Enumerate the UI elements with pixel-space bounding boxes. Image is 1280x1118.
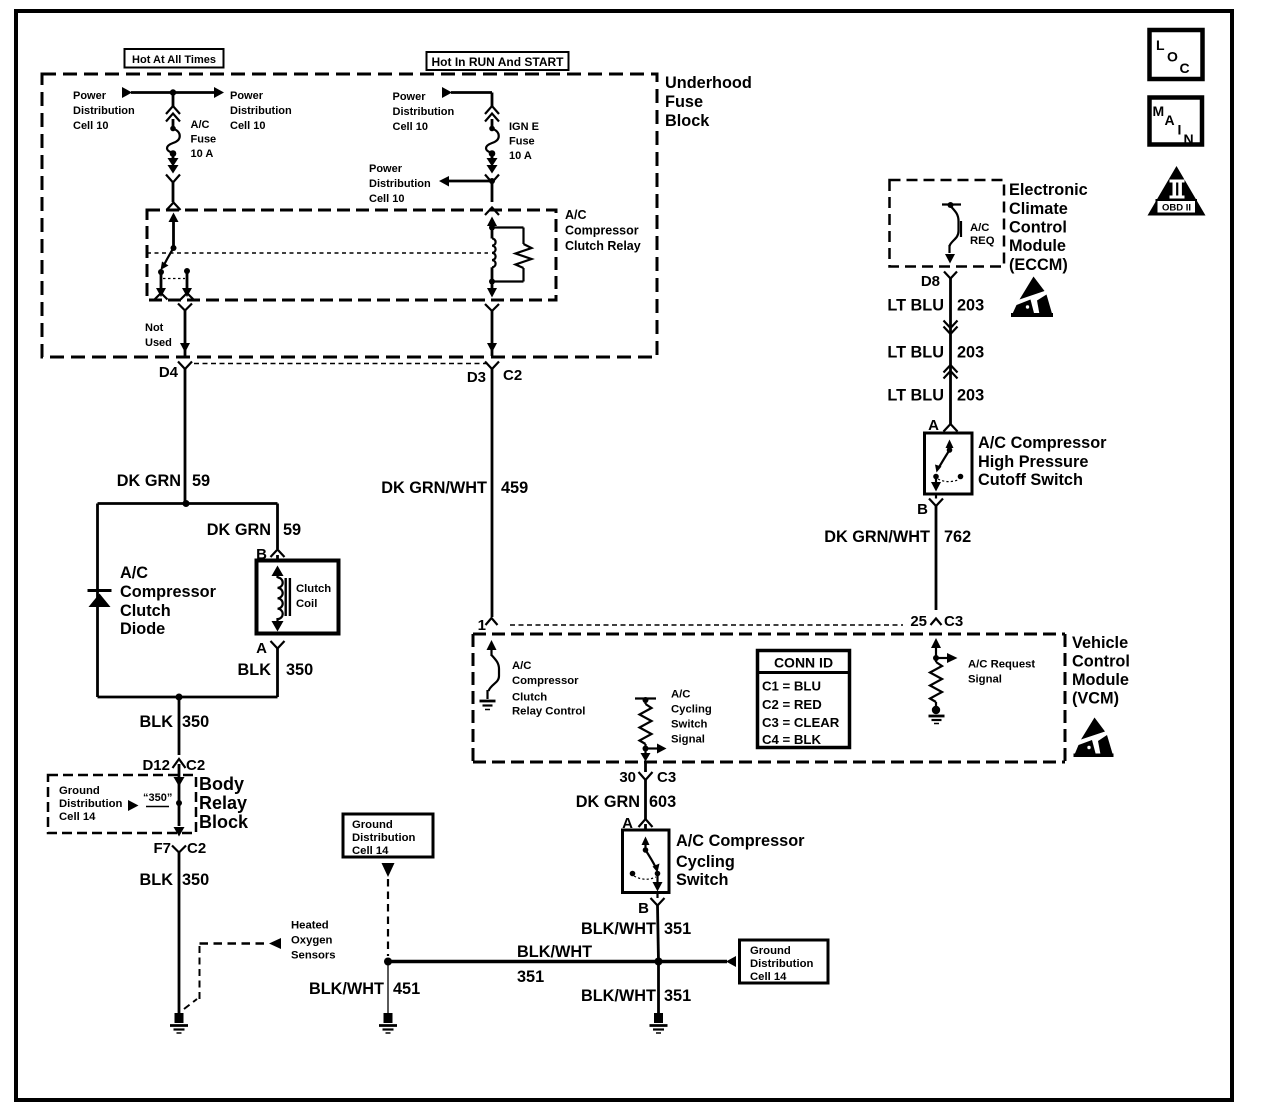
svg-text:D12: D12 [142, 757, 170, 774]
svg-text:Body: Body [199, 774, 244, 794]
svg-text:Cell 14: Cell 14 [352, 845, 389, 857]
svg-text:A/C: A/C [970, 222, 989, 234]
svg-text:Used: Used [145, 337, 172, 349]
svg-text:C: C [1180, 60, 1190, 76]
svg-text:Cell 14: Cell 14 [59, 811, 96, 823]
svg-text:Distribution: Distribution [59, 798, 122, 810]
svg-text:451: 451 [393, 980, 420, 998]
svg-text:Cycling: Cycling [671, 704, 712, 716]
svg-text:Cycling: Cycling [676, 853, 735, 871]
svg-text:351: 351 [517, 968, 544, 986]
svg-text:Compressor: Compressor [565, 224, 639, 238]
svg-text:BLK/WHT: BLK/WHT [309, 980, 384, 998]
svg-text:59: 59 [192, 472, 210, 490]
svg-text:10 A: 10 A [509, 150, 532, 162]
svg-text:Ground: Ground [750, 945, 791, 957]
svg-text:350: 350 [286, 661, 313, 679]
svg-text:Relay: Relay [199, 793, 247, 813]
svg-text:203: 203 [957, 344, 984, 362]
svg-text:BLK: BLK [140, 713, 174, 731]
svg-text:C2: C2 [503, 367, 522, 384]
svg-text:Distribution: Distribution [393, 106, 455, 118]
svg-text:A: A [928, 417, 939, 434]
svg-text:BLK/WHT: BLK/WHT [517, 943, 592, 961]
svg-text:A/C: A/C [512, 660, 531, 672]
svg-text:CONN ID: CONN ID [774, 655, 833, 671]
svg-text:DK GRN/WHT: DK GRN/WHT [824, 528, 930, 546]
svg-text:B: B [638, 900, 649, 917]
svg-text:351: 351 [664, 987, 691, 1005]
svg-text:1: 1 [478, 617, 486, 634]
svg-text:Distribution: Distribution [369, 178, 431, 190]
svg-text:Distribution: Distribution [352, 832, 415, 844]
svg-text:(VCM): (VCM) [1072, 690, 1119, 708]
svg-text:Signal: Signal [968, 674, 1002, 686]
svg-text:N: N [1184, 131, 1194, 147]
svg-text:Hot At All Times: Hot At All Times [132, 54, 216, 66]
svg-text:10 A: 10 A [191, 148, 214, 160]
svg-text:Oxygen: Oxygen [291, 935, 333, 947]
svg-text:Fuse: Fuse [665, 93, 703, 111]
svg-text:Cell 10: Cell 10 [393, 121, 428, 133]
svg-text:IGN E: IGN E [509, 121, 539, 133]
svg-text:LT BLU: LT BLU [887, 297, 944, 315]
svg-text:Underhood: Underhood [665, 74, 752, 92]
svg-text:C2: C2 [187, 840, 206, 857]
svg-text:I: I [1178, 122, 1182, 138]
svg-text:C1 = BLU: C1 = BLU [762, 679, 821, 694]
svg-text:Cell 10: Cell 10 [73, 120, 108, 132]
svg-text:High Pressure: High Pressure [978, 453, 1088, 471]
svg-text:C3 = CLEAR: C3 = CLEAR [762, 715, 840, 730]
svg-text:Switch: Switch [671, 719, 708, 731]
svg-text:C4 = BLK: C4 = BLK [762, 732, 821, 747]
svg-text:Clutch: Clutch [512, 692, 547, 704]
svg-text:Control: Control [1072, 653, 1130, 671]
svg-text:A/C: A/C [191, 119, 210, 131]
svg-text:Ground: Ground [59, 785, 100, 797]
svg-text:L: L [1156, 37, 1165, 53]
svg-text:D3: D3 [467, 369, 486, 386]
svg-text:Climate: Climate [1009, 200, 1068, 218]
svg-text:OBD II: OBD II [1162, 203, 1191, 214]
svg-text:Module: Module [1072, 671, 1129, 689]
svg-text:C2 = RED: C2 = RED [762, 697, 822, 712]
svg-text:A: A [1165, 112, 1175, 128]
svg-text:DK GRN: DK GRN [576, 793, 640, 811]
svg-text:A/C Compressor: A/C Compressor [978, 434, 1107, 452]
svg-text:Distribution: Distribution [750, 958, 813, 970]
svg-text:59: 59 [283, 521, 301, 539]
svg-text:Cutoff Switch: Cutoff Switch [978, 471, 1083, 489]
svg-text:BLK/WHT: BLK/WHT [581, 987, 656, 1005]
svg-text:Ground: Ground [352, 819, 393, 831]
svg-text:Fuse: Fuse [191, 134, 217, 146]
svg-text:Cell 10: Cell 10 [369, 193, 404, 205]
svg-text:BLK: BLK [238, 661, 272, 679]
svg-text:Vehicle: Vehicle [1072, 634, 1128, 652]
svg-text:Electronic: Electronic [1009, 181, 1088, 199]
svg-text:Hot In RUN And START: Hot In RUN And START [432, 55, 565, 69]
svg-text:C2: C2 [186, 757, 205, 774]
svg-text:Compressor: Compressor [512, 675, 579, 687]
svg-text:REQ: REQ [970, 235, 995, 247]
svg-text:Fuse: Fuse [509, 136, 535, 148]
svg-text:Diode: Diode [120, 620, 165, 638]
svg-text:Cell 10: Cell 10 [230, 120, 265, 132]
svg-text:Module: Module [1009, 237, 1066, 255]
svg-text:B: B [917, 501, 928, 518]
svg-text:Coil: Coil [296, 598, 317, 610]
svg-text:Power: Power [230, 90, 264, 102]
svg-text:351: 351 [664, 920, 691, 938]
svg-text:762: 762 [944, 528, 971, 546]
svg-text:M: M [1153, 103, 1165, 119]
svg-text:25: 25 [910, 613, 927, 630]
svg-text:D4: D4 [159, 364, 179, 381]
svg-text:Distribution: Distribution [73, 105, 135, 117]
svg-text:DK GRN/WHT: DK GRN/WHT [381, 479, 487, 497]
svg-text:Block: Block [665, 112, 710, 130]
svg-text:459: 459 [501, 479, 528, 497]
svg-text:BLK/WHT: BLK/WHT [581, 920, 656, 938]
svg-text:“350”: “350” [143, 792, 172, 804]
svg-text:C3: C3 [944, 613, 963, 630]
svg-text:DK GRN: DK GRN [117, 472, 181, 490]
svg-text:A/C Compressor: A/C Compressor [676, 832, 805, 850]
svg-text:Distribution: Distribution [230, 105, 292, 117]
svg-text:350: 350 [182, 871, 209, 889]
svg-text:Sensors: Sensors [291, 950, 336, 962]
svg-text:A/C: A/C [565, 208, 587, 222]
svg-text:Power: Power [393, 91, 427, 103]
svg-text:Control: Control [1009, 219, 1067, 237]
svg-text:203: 203 [957, 297, 984, 315]
svg-text:Clutch Relay: Clutch Relay [565, 239, 641, 253]
svg-text:Power: Power [73, 90, 107, 102]
svg-text:30: 30 [619, 769, 636, 786]
svg-text:F7: F7 [153, 840, 171, 857]
svg-text:203: 203 [957, 387, 984, 405]
svg-text:A: A [256, 640, 267, 657]
svg-text:C3: C3 [657, 769, 676, 786]
svg-text:Not: Not [145, 322, 164, 334]
svg-text:Block: Block [199, 812, 249, 832]
svg-text:A/C: A/C [671, 689, 690, 701]
svg-text:Compressor: Compressor [120, 583, 217, 601]
svg-text:Relay Control: Relay Control [512, 706, 585, 718]
svg-text:(ECCM): (ECCM) [1009, 256, 1068, 274]
svg-text:Cell 14: Cell 14 [750, 971, 787, 983]
svg-text:A/C: A/C [120, 564, 148, 582]
svg-text:Power: Power [369, 163, 403, 175]
svg-text:BLK: BLK [140, 871, 174, 889]
svg-text:Heated: Heated [291, 920, 329, 932]
svg-text:DK GRN: DK GRN [207, 521, 271, 539]
svg-text:350: 350 [182, 713, 209, 731]
svg-text:D8: D8 [921, 273, 940, 290]
svg-text:O: O [1167, 49, 1178, 65]
svg-text:Switch: Switch [676, 871, 728, 889]
svg-text:Clutch: Clutch [120, 602, 171, 620]
svg-text:603: 603 [649, 793, 676, 811]
svg-text:Signal: Signal [671, 734, 705, 746]
svg-text:LT BLU: LT BLU [887, 387, 944, 405]
svg-text:A/C Request: A/C Request [968, 659, 1035, 671]
svg-text:LT BLU: LT BLU [887, 344, 944, 362]
svg-text:Clutch: Clutch [296, 583, 331, 595]
